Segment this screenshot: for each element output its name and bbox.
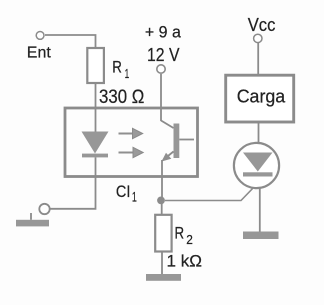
wire bottom terminal to LED cathode [50,177,96,209]
label CI1 [116,182,137,205]
wire R1 bottom to optocoupler box [95,84,97,108]
SCR cathode bar [243,172,273,176]
terminal Ent return (bottom) [39,204,49,214]
terminal Ent [36,32,44,40]
label +9 a 12V [145,22,181,65]
phototransistor Q of CI1 : collector lead [161,121,174,129]
svg-text:CI: CI [116,182,130,201]
label Ent [27,45,52,62]
svg-text:12 V: 12 V [147,45,180,65]
resistor R2 [155,215,171,252]
svg-text:Carga: Carga [237,85,286,106]
svg-text:2: 2 [186,232,193,247]
wire junction to R2 [161,203,163,214]
resistor R1 [87,48,104,83]
wire Ent terminal to R1 top [45,35,96,48]
terminal Vcc [254,34,262,42]
wire R2 bottom to ground [161,253,163,275]
ground bar bottom-left [16,220,49,227]
value label 330 ohm [99,87,144,108]
wire Carga to SCR anode [258,123,260,143]
wire Vcc to Carga box [257,43,259,75]
label R1 [112,59,129,82]
wire gate from junction to SCR [165,187,255,201]
value label 1 kohm [167,252,203,271]
ground bar below R2 [146,274,181,281]
SCR / thyristor body circle [234,143,279,188]
label R2 [175,224,193,247]
svg-text:+ 9 a: + 9 a [145,22,181,41]
svg-text:R: R [112,59,122,77]
svg-text:330 Ω: 330 Ω [99,87,144,108]
svg-text:Ent: Ent [27,45,52,62]
svg-text:1: 1 [125,66,130,81]
ground stub bottom-left [30,213,32,220]
svg-text:1 kΩ: 1 kΩ [167,252,203,271]
phototransistor emitter lead with arrow [162,152,174,177]
label Vcc [248,15,276,35]
wire supply terminal to phototransistor collector [160,74,162,121]
light arrow lower [119,147,144,157]
light arrow upper [119,128,143,138]
svg-text:R: R [175,224,185,242]
terminal +9 a 12V supply [157,65,165,73]
LED anode wire inside CI1 [95,108,97,132]
phototransistor base bar [174,124,180,159]
ground bar below SCR [243,232,279,240]
label Carga [237,85,286,106]
LED D1 of optocoupler [82,132,109,158]
phototransistor base lead [179,139,194,141]
load box Carga [226,75,294,122]
svg-text:1: 1 [132,190,137,205]
wire emitter below box to junction [161,177,163,198]
wire SCR cathode to ground [259,189,261,232]
svg-text:Vcc: Vcc [248,15,276,35]
optocoupler CI1 box [65,108,198,177]
node junction emitter/R2/gate [157,197,165,205]
SCR triangle [243,153,273,172]
LED cathode wire inside CI1 [95,157,97,176]
